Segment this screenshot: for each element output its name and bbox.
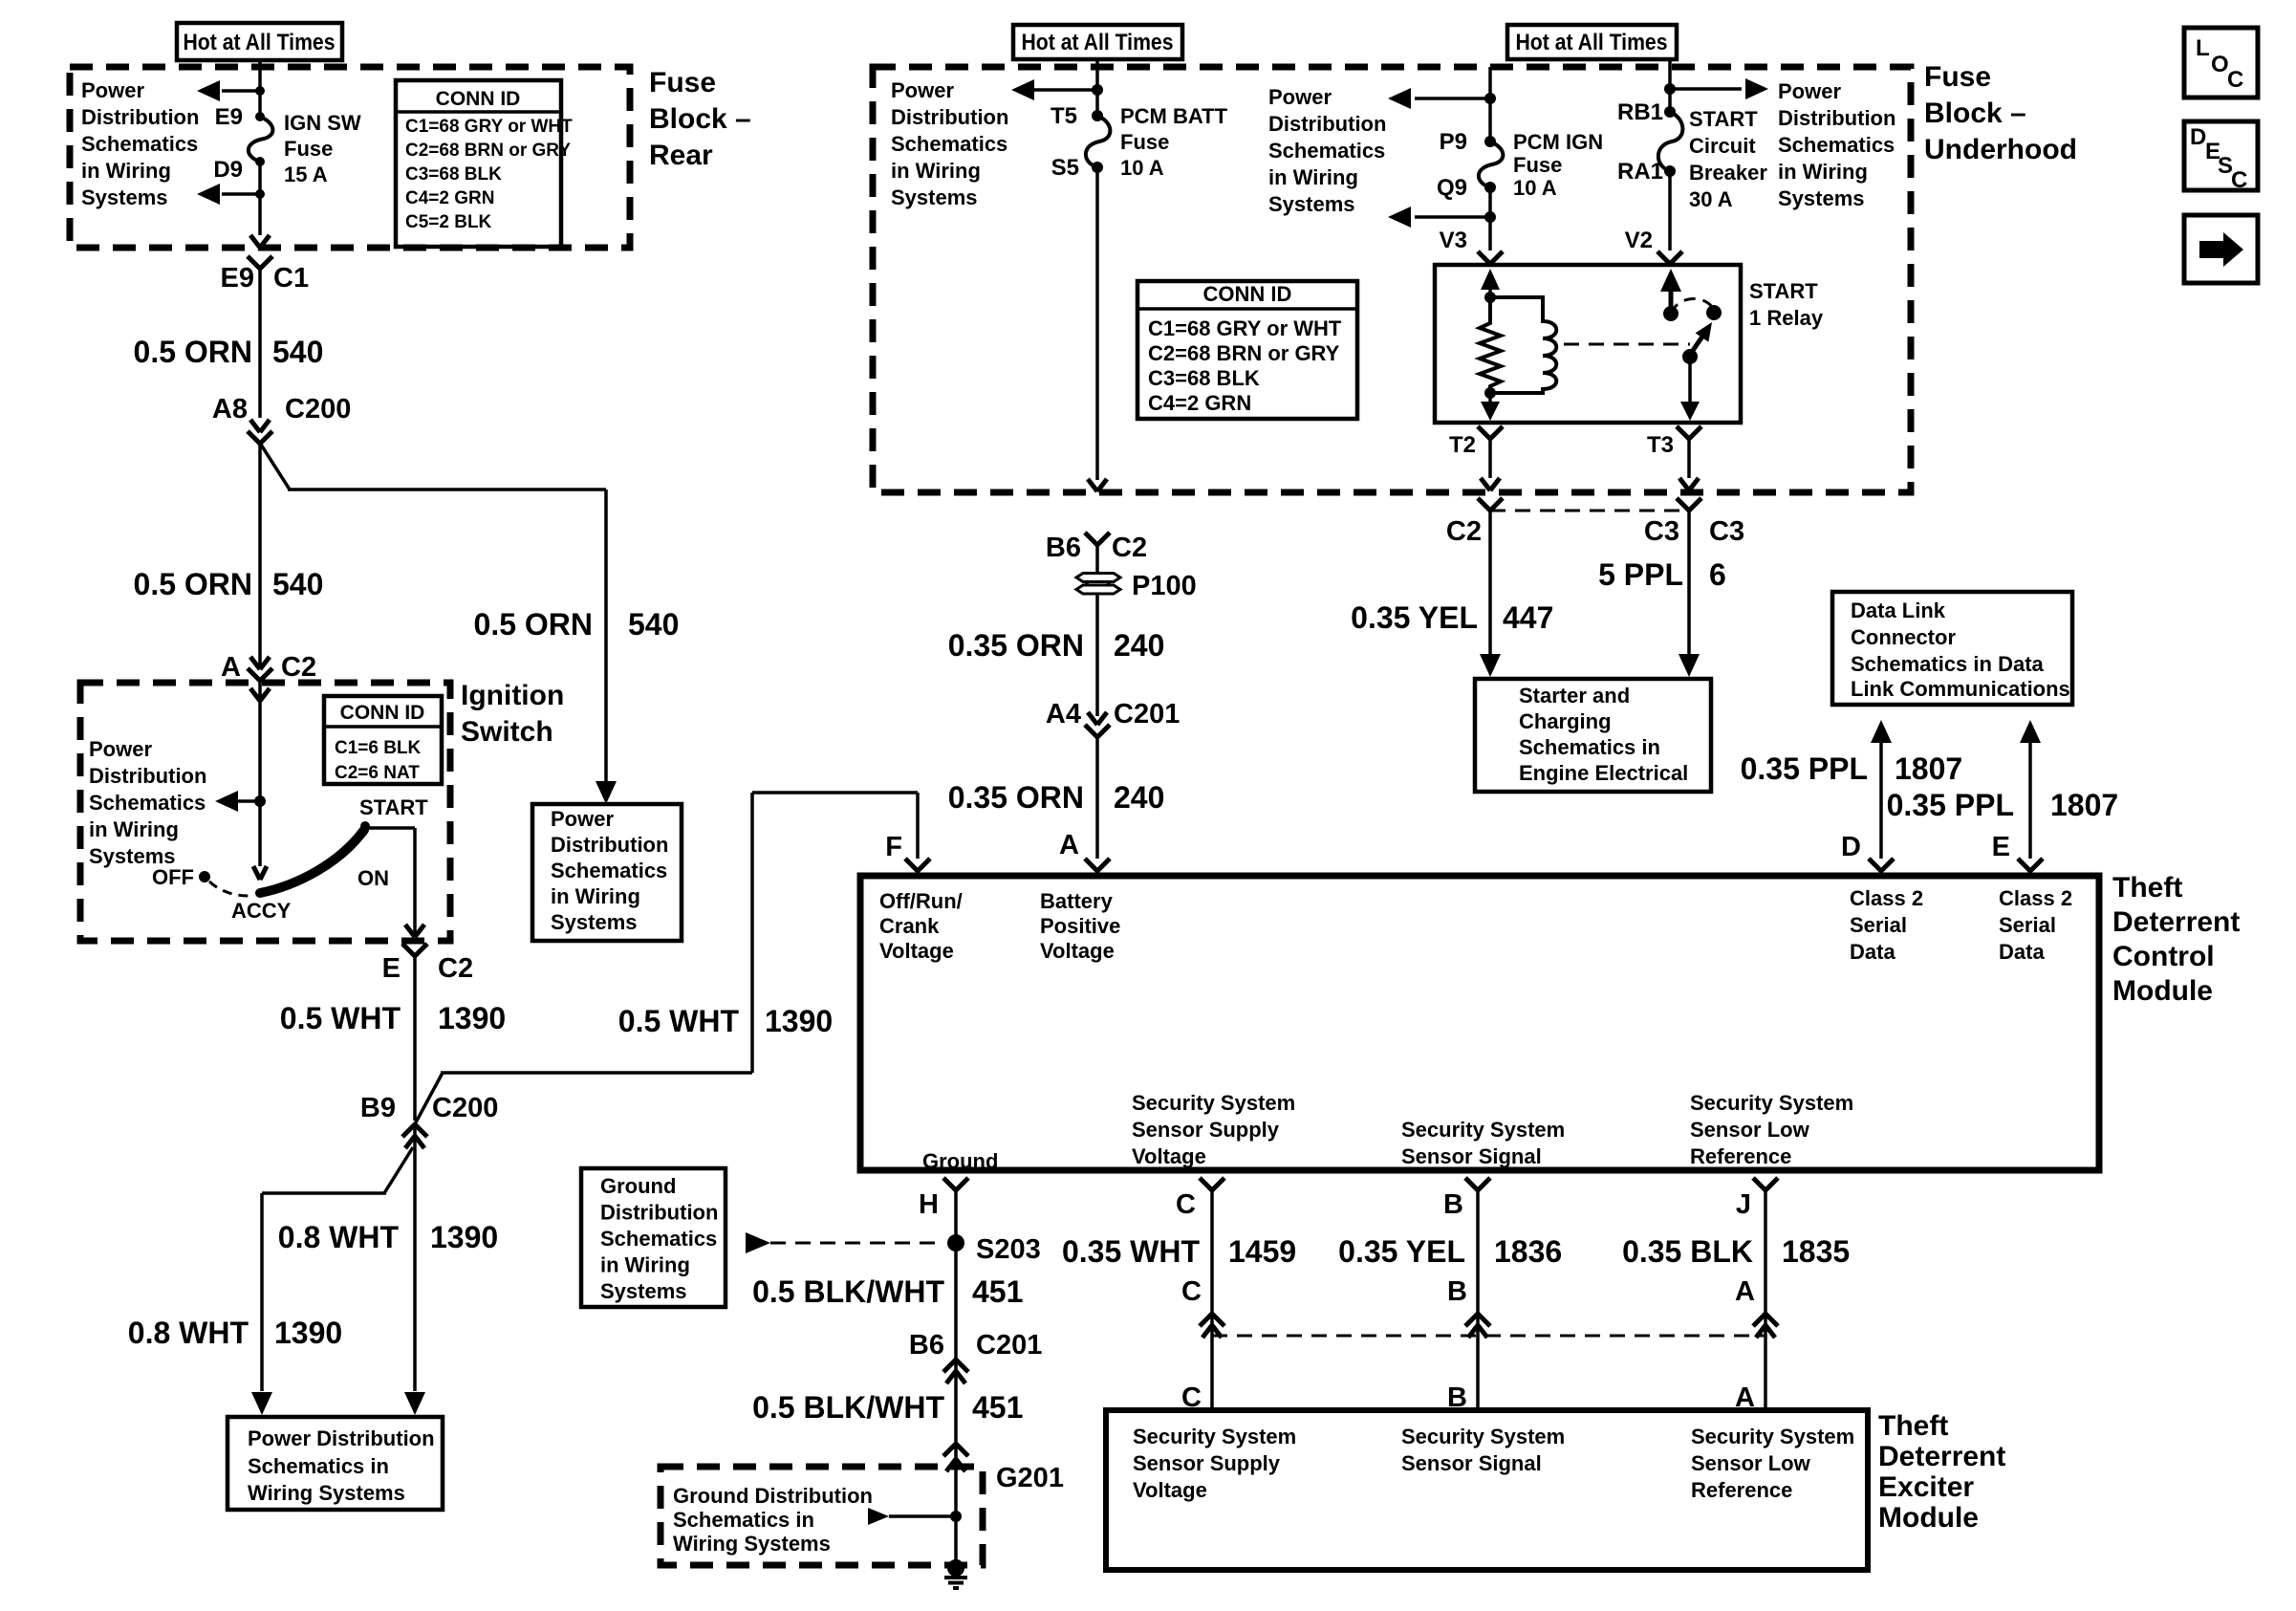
svg-text:C201: C201 — [1114, 699, 1180, 729]
svg-text:P9: P9 — [1440, 129, 1467, 155]
svg-text:S5: S5 — [1051, 155, 1079, 181]
svg-text:Security System: Security System — [1690, 1091, 1853, 1115]
svg-text:A8: A8 — [212, 394, 248, 425]
svg-text:A4: A4 — [1046, 699, 1081, 729]
svg-text:Distribution: Distribution — [81, 105, 199, 129]
svg-text:1390: 1390 — [765, 1004, 833, 1038]
svg-text:Power Distribution: Power Distribution — [248, 1426, 435, 1450]
svg-text:0.5 BLK/WHT: 0.5 BLK/WHT — [752, 1274, 944, 1309]
svg-text:0.8 WHT: 0.8 WHT — [278, 1220, 400, 1254]
svg-text:0.8 WHT: 0.8 WHT — [128, 1316, 249, 1350]
svg-text:Systems: Systems — [1268, 192, 1355, 216]
svg-text:Security System: Security System — [1133, 1425, 1296, 1448]
svg-text:START: START — [1749, 279, 1818, 303]
svg-text:C2: C2 — [438, 953, 473, 984]
svg-text:Circuit: Circuit — [1689, 134, 1756, 158]
svg-text:451: 451 — [972, 1390, 1023, 1425]
svg-text:OFF: OFF — [152, 865, 194, 889]
svg-text:Class 2: Class 2 — [1850, 886, 1923, 910]
svg-text:Schematics: Schematics — [89, 791, 206, 815]
svg-text:CONN ID: CONN ID — [340, 702, 425, 724]
svg-text:Power: Power — [81, 78, 144, 102]
svg-text:Positive: Positive — [1040, 914, 1120, 938]
svg-text:451: 451 — [972, 1274, 1023, 1309]
svg-text:Fuse: Fuse — [649, 67, 716, 98]
svg-text:0.35 YEL: 0.35 YEL — [1351, 600, 1478, 635]
svg-text:1390: 1390 — [430, 1220, 498, 1254]
svg-text:C3=68 BLK: C3=68 BLK — [405, 164, 502, 185]
svg-text:A: A — [1735, 1276, 1755, 1307]
svg-text:START: START — [1689, 107, 1758, 131]
svg-text:C1: C1 — [273, 263, 309, 294]
svg-text:C5=2 BLK: C5=2 BLK — [405, 212, 492, 232]
svg-text:C2: C2 — [1446, 516, 1482, 547]
svg-text:Power: Power — [1268, 85, 1332, 109]
svg-text:RB1: RB1 — [1617, 99, 1663, 125]
svg-text:C: C — [1181, 1276, 1202, 1307]
svg-text:10 A: 10 A — [1120, 156, 1164, 180]
svg-text:1836: 1836 — [1494, 1234, 1562, 1269]
svg-text:15 A: 15 A — [284, 163, 328, 186]
svg-text:V2: V2 — [1625, 228, 1653, 253]
svg-text:IGN SW: IGN SW — [284, 111, 361, 135]
svg-text:C200: C200 — [432, 1093, 498, 1123]
svg-text:Distribution: Distribution — [891, 105, 1008, 129]
svg-text:Sensor Signal: Sensor Signal — [1401, 1144, 1542, 1168]
svg-text:0.5 BLK/WHT: 0.5 BLK/WHT — [752, 1390, 944, 1425]
svg-text:C: C — [1176, 1189, 1196, 1220]
svg-text:Schematics: Schematics — [81, 132, 198, 156]
svg-text:Sensor Supply: Sensor Supply — [1133, 1451, 1281, 1475]
svg-text:Battery: Battery — [1040, 889, 1114, 913]
svg-text:E: E — [382, 953, 401, 984]
svg-text:Serial: Serial — [1850, 913, 1907, 937]
svg-text:Voltage: Voltage — [1133, 1478, 1207, 1502]
svg-text:1 Relay: 1 Relay — [1749, 306, 1824, 330]
svg-text:Hot at All Times: Hot at All Times — [184, 30, 336, 55]
svg-text:Voltage: Voltage — [1040, 939, 1115, 963]
svg-text:Fuse: Fuse — [1513, 153, 1562, 177]
svg-text:C: C — [2231, 167, 2247, 193]
svg-text:C3: C3 — [1644, 516, 1679, 547]
svg-text:Data: Data — [1999, 940, 2045, 964]
svg-text:J: J — [1736, 1189, 1751, 1220]
svg-text:Data Link: Data Link — [1851, 599, 1946, 622]
svg-text:C2: C2 — [281, 652, 316, 683]
svg-text:Underhood: Underhood — [1924, 134, 2077, 165]
svg-text:H: H — [919, 1189, 939, 1220]
svg-text:in Wiring: in Wiring — [81, 159, 171, 183]
svg-text:Security System: Security System — [1132, 1091, 1295, 1115]
svg-text:Module: Module — [2112, 975, 2213, 1007]
svg-text:Sensor Supply: Sensor Supply — [1132, 1118, 1280, 1142]
svg-text:Connector: Connector — [1851, 625, 1956, 649]
svg-text:D: D — [1841, 832, 1861, 862]
svg-text:C1=6 BLK: C1=6 BLK — [335, 738, 422, 758]
svg-text:Wiring Systems: Wiring Systems — [248, 1481, 405, 1505]
svg-text:1390: 1390 — [274, 1316, 342, 1350]
svg-text:C4=2 GRN: C4=2 GRN — [405, 188, 494, 208]
svg-text:Fuse: Fuse — [1120, 130, 1169, 154]
svg-text:Serial: Serial — [1999, 913, 2056, 937]
svg-text:Power: Power — [89, 737, 152, 761]
svg-text:C: C — [2227, 67, 2243, 93]
svg-text:V3: V3 — [1440, 228, 1467, 253]
svg-text:Distribution: Distribution — [600, 1201, 718, 1225]
svg-text:Sensor Signal: Sensor Signal — [1401, 1451, 1542, 1475]
svg-text:0.5 ORN: 0.5 ORN — [134, 335, 252, 369]
svg-text:Systems: Systems — [551, 910, 638, 934]
svg-text:Data: Data — [1850, 940, 1895, 964]
svg-text:Deterrent: Deterrent — [2112, 906, 2240, 938]
svg-text:T3: T3 — [1647, 432, 1674, 458]
svg-text:Voltage: Voltage — [879, 939, 954, 963]
svg-text:240: 240 — [1114, 628, 1164, 663]
svg-text:447: 447 — [1503, 600, 1553, 635]
svg-text:0.5 WHT: 0.5 WHT — [280, 1001, 401, 1035]
svg-text:D: D — [2190, 124, 2206, 150]
svg-text:Ground Distribution: Ground Distribution — [673, 1484, 873, 1508]
svg-text:D9: D9 — [213, 157, 243, 183]
svg-text:A: A — [1059, 830, 1079, 860]
svg-text:Fuse: Fuse — [284, 137, 333, 161]
svg-text:Class 2: Class 2 — [1999, 886, 2072, 910]
svg-text:ON: ON — [357, 866, 389, 890]
svg-text:1807: 1807 — [2050, 788, 2118, 822]
svg-text:B: B — [1443, 1189, 1463, 1220]
svg-text:in Wiring: in Wiring — [600, 1253, 690, 1277]
svg-text:Systems: Systems — [891, 185, 978, 209]
svg-text:B6: B6 — [909, 1330, 944, 1361]
svg-text:1459: 1459 — [1228, 1234, 1296, 1269]
svg-text:Theft: Theft — [1878, 1410, 1948, 1442]
svg-text:Hot at All Times: Hot at All Times — [1022, 30, 1174, 55]
svg-text:RA1: RA1 — [1617, 159, 1663, 185]
svg-text:Systems: Systems — [600, 1279, 687, 1303]
svg-text:C2=6 NAT: C2=6 NAT — [335, 763, 420, 783]
svg-text:E9: E9 — [221, 263, 254, 294]
svg-text:ACCY: ACCY — [231, 899, 292, 923]
svg-text:Reference: Reference — [1691, 1478, 1792, 1502]
svg-text:B6: B6 — [1046, 533, 1081, 563]
svg-text:0.35 WHT: 0.35 WHT — [1062, 1234, 1200, 1269]
svg-text:Exciter: Exciter — [1878, 1471, 1974, 1503]
svg-text:Distribution: Distribution — [1778, 106, 1895, 130]
svg-text:C3: C3 — [1709, 516, 1744, 547]
svg-text:540: 540 — [628, 607, 679, 642]
svg-text:C4=2 GRN: C4=2 GRN — [1148, 391, 1251, 415]
svg-text:T2: T2 — [1449, 432, 1476, 458]
svg-text:C2=68 BRN or GRY: C2=68 BRN or GRY — [1148, 341, 1340, 365]
svg-text:E9: E9 — [215, 104, 243, 130]
svg-text:6: 6 — [1709, 557, 1726, 592]
svg-text:L: L — [2196, 35, 2210, 61]
svg-text:Schematics in: Schematics in — [248, 1454, 389, 1478]
svg-text:240: 240 — [1114, 780, 1164, 815]
svg-text:in Wiring: in Wiring — [1778, 160, 1868, 184]
svg-text:Module: Module — [1878, 1502, 1979, 1534]
svg-text:Schematics: Schematics — [1268, 139, 1385, 163]
svg-text:540: 540 — [272, 567, 323, 601]
svg-text:E: E — [1992, 832, 2010, 862]
svg-text:Fuse: Fuse — [1924, 61, 1991, 93]
svg-text:CONN ID: CONN ID — [436, 88, 521, 110]
svg-text:0.35 ORN: 0.35 ORN — [948, 780, 1084, 815]
svg-text:0.5 ORN: 0.5 ORN — [474, 607, 593, 642]
svg-text:Schematics: Schematics — [1778, 133, 1895, 157]
svg-text:Ground: Ground — [922, 1149, 998, 1173]
svg-text:Block –: Block – — [649, 103, 751, 135]
svg-text:C3=68 BLK: C3=68 BLK — [1148, 366, 1260, 390]
svg-text:0.35 BLK: 0.35 BLK — [1622, 1234, 1753, 1269]
svg-text:Distribution: Distribution — [1268, 112, 1386, 136]
svg-text:Q9: Q9 — [1437, 175, 1467, 201]
svg-text:Block –: Block – — [1924, 98, 2026, 129]
svg-text:Distribution: Distribution — [89, 764, 206, 788]
svg-text:Rear: Rear — [649, 140, 713, 171]
svg-text:Control: Control — [2112, 941, 2215, 972]
svg-text:A: A — [221, 652, 241, 683]
svg-text:P100: P100 — [1132, 571, 1197, 601]
svg-text:Security System: Security System — [1691, 1425, 1854, 1448]
svg-text:Ground: Ground — [600, 1174, 676, 1198]
svg-text:0.35 PPL: 0.35 PPL — [1887, 788, 2014, 822]
svg-text:Engine Electrical: Engine Electrical — [1519, 761, 1688, 785]
svg-text:Ignition: Ignition — [461, 680, 564, 711]
svg-text:C2: C2 — [1112, 533, 1147, 563]
svg-text:PCM IGN: PCM IGN — [1513, 130, 1603, 154]
svg-text:Schematics in: Schematics in — [673, 1508, 814, 1532]
svg-text:Starter and: Starter and — [1519, 684, 1630, 708]
svg-text:S203: S203 — [976, 1234, 1041, 1265]
svg-text:0.35 PPL: 0.35 PPL — [1741, 751, 1868, 786]
svg-text:in Wiring: in Wiring — [551, 884, 640, 908]
svg-text:T5: T5 — [1051, 103, 1077, 129]
svg-text:Schematics: Schematics — [891, 132, 1007, 156]
svg-text:Sensor Low: Sensor Low — [1690, 1118, 1810, 1142]
svg-text:0.35 ORN: 0.35 ORN — [948, 628, 1084, 663]
svg-text:Reference: Reference — [1690, 1144, 1791, 1168]
svg-text:1807: 1807 — [1895, 751, 1962, 786]
svg-text:B9: B9 — [360, 1093, 396, 1123]
svg-text:540: 540 — [272, 335, 323, 369]
svg-text:10 A: 10 A — [1513, 176, 1557, 200]
svg-text:in Wiring: in Wiring — [1268, 165, 1358, 189]
svg-text:Switch: Switch — [461, 716, 553, 748]
svg-text:in Wiring: in Wiring — [891, 159, 981, 183]
svg-text:0.35 YEL: 0.35 YEL — [1338, 1234, 1465, 1269]
svg-text:0.5 ORN: 0.5 ORN — [134, 567, 252, 601]
svg-text:Sensor Low: Sensor Low — [1691, 1451, 1811, 1475]
svg-text:Power: Power — [551, 807, 614, 831]
svg-text:Breaker: Breaker — [1689, 161, 1767, 185]
svg-text:PCM BATT: PCM BATT — [1120, 104, 1228, 128]
svg-text:G201: G201 — [996, 1463, 1064, 1493]
svg-text:Power: Power — [1778, 79, 1841, 103]
svg-text:Link Communications: Link Communications — [1851, 677, 2070, 701]
svg-text:Crank: Crank — [879, 914, 940, 938]
svg-text:C200: C200 — [285, 394, 351, 425]
svg-text:5 PPL: 5 PPL — [1598, 557, 1683, 592]
svg-text:Security System: Security System — [1401, 1118, 1565, 1142]
svg-text:Security System: Security System — [1401, 1425, 1565, 1448]
svg-text:Schematics: Schematics — [551, 859, 667, 882]
svg-text:Power: Power — [891, 78, 954, 102]
svg-text:C1=68 GRY or WHT: C1=68 GRY or WHT — [405, 117, 573, 137]
svg-text:O: O — [2211, 52, 2229, 77]
svg-text:C201: C201 — [976, 1330, 1042, 1361]
svg-text:30 A: 30 A — [1689, 187, 1733, 211]
svg-text:Schematics in: Schematics in — [1519, 735, 1660, 759]
svg-text:B: B — [1447, 1276, 1467, 1307]
svg-text:C2=68 BRN or GRY: C2=68 BRN or GRY — [405, 141, 571, 161]
svg-text:1390: 1390 — [438, 1001, 506, 1035]
svg-text:Systems: Systems — [1778, 186, 1865, 210]
svg-text:0.5 WHT: 0.5 WHT — [618, 1004, 740, 1038]
svg-text:F: F — [885, 832, 902, 862]
svg-text:Schematics: Schematics — [600, 1227, 717, 1251]
svg-text:Voltage: Voltage — [1132, 1144, 1206, 1168]
svg-text:Off/Run/: Off/Run/ — [879, 889, 963, 913]
svg-text:Hot at All Times: Hot at All Times — [1516, 30, 1668, 55]
svg-text:C1=68 GRY or WHT: C1=68 GRY or WHT — [1148, 316, 1342, 340]
svg-text:Wiring Systems: Wiring Systems — [673, 1532, 831, 1556]
svg-text:Theft: Theft — [2112, 872, 2182, 903]
svg-text:Schematics in Data: Schematics in Data — [1851, 652, 2045, 676]
svg-text:Distribution: Distribution — [551, 833, 668, 857]
svg-text:START: START — [359, 795, 428, 819]
svg-text:CONN ID: CONN ID — [1203, 282, 1292, 306]
svg-text:1835: 1835 — [1782, 1234, 1850, 1269]
svg-text:Charging: Charging — [1519, 709, 1612, 733]
svg-text:Deterrent: Deterrent — [1878, 1441, 2005, 1472]
svg-text:Systems: Systems — [81, 185, 168, 209]
svg-text:in Wiring: in Wiring — [89, 817, 179, 841]
